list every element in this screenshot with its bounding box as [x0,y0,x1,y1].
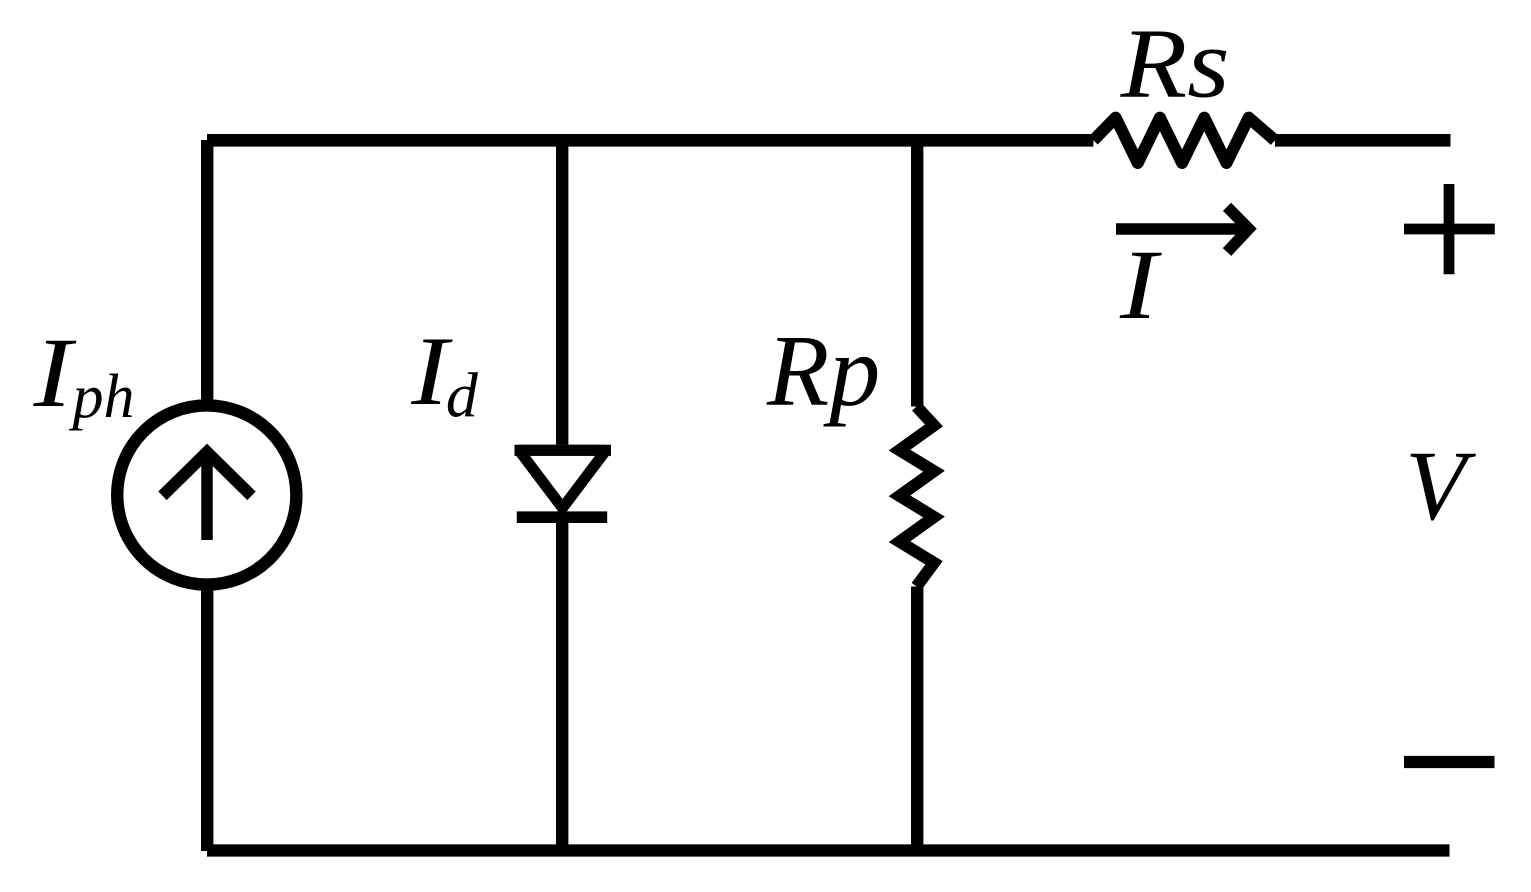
svg-text:I: I [33,317,78,428]
wire bottom rail [207,844,1450,856]
resistor Rs (series resistor zigzag) [1093,118,1275,163]
wire top rail right segment (Rs to + terminal) [1275,134,1451,147]
wire top rail left segment (node A to Rs) [207,134,1093,147]
current arrow I shaft [1116,223,1243,235]
terminal plus sign horizontal bar [1404,224,1495,235]
wire left branch lower (current source to bottom rail) [201,589,213,852]
current source Iph circle [117,405,296,584]
resistor Rp (shunt resistor zigzag) [900,407,935,587]
current source arrow head (chevron up) [163,452,252,496]
svg-text:V: V [1405,430,1476,541]
current source arrow shaft [201,452,213,540]
wire left branch upper (top rail to current source) [201,140,213,402]
terminal plus sign vertical bar [1444,184,1455,274]
wire diode branch lower (diode to bottom rail) [556,517,568,851]
svg-text:ph: ph [69,363,135,431]
wire diode branch upper (top rail to diode) [556,140,568,445]
terminal minus sign [1404,756,1495,768]
svg-text:Rs: Rs [1120,7,1230,118]
diode D anode bar [515,445,612,456]
wire Rp branch upper (top rail to Rp) [911,140,923,407]
wire Rp branch lower (Rp to bottom rail) [911,587,923,852]
svg-text:Rp: Rp [766,315,880,428]
current arrow I head [1227,207,1249,252]
diode D cathode bar [517,511,607,523]
svg-text:I: I [1119,229,1163,340]
svg-text:d: d [446,360,479,431]
diode D triangle [519,450,606,508]
